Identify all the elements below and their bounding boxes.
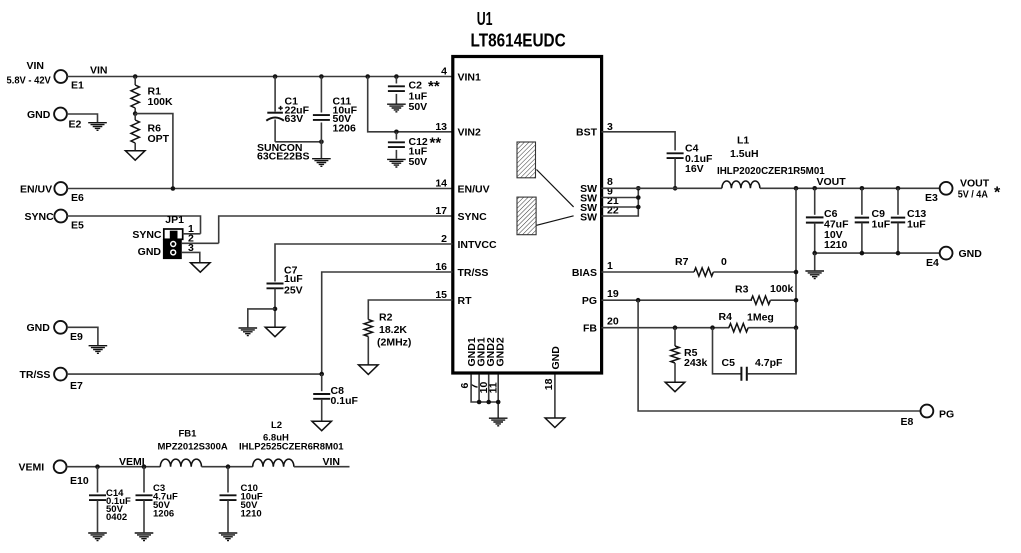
svg-text:4: 4 (441, 66, 447, 78)
capacitor C9 1uF (855, 188, 891, 253)
node SW bus junction pin 8 (636, 186, 641, 191)
node R1/R6 junction (133, 111, 138, 116)
svg-text:1: 1 (607, 260, 613, 272)
resistor R3 100k (735, 283, 794, 304)
svg-text:243k: 243k (684, 357, 708, 369)
svg-text:17: 17 (435, 205, 447, 217)
svg-text:**: ** (430, 135, 442, 152)
wire VIN2 branch (368, 77, 453, 132)
wire R3 to vertical (770, 299, 796, 301)
svg-text:R7: R7 (675, 256, 689, 268)
svg-text:SW: SW (580, 212, 597, 224)
terminal E8 PG (901, 405, 955, 428)
svg-text:1206: 1206 (333, 123, 357, 135)
IC U1 LT8614EUDC (buck regulator) (453, 8, 602, 373)
capacitor C7 1uF 25V (267, 265, 304, 327)
svg-text:INTVCC: INTVCC (458, 239, 498, 251)
svg-text:1uF: 1uF (284, 273, 303, 285)
node C11 bottom junction (319, 140, 324, 145)
svg-text:1.5uH: 1.5uH (730, 148, 759, 160)
svg-text:FB: FB (583, 323, 597, 335)
pin SW (21) (580, 195, 619, 214)
svg-text:BIAS: BIAS (572, 267, 597, 279)
svg-text:E2: E2 (69, 119, 82, 131)
internal switch block upper (517, 142, 536, 178)
svg-text:E5: E5 (71, 220, 84, 232)
node VIN rail / C2 junction (394, 74, 399, 79)
svg-text:*: * (994, 185, 1001, 202)
svg-text:18.2K: 18.2K (379, 324, 407, 336)
node C3 junction (142, 464, 147, 469)
pin SW (22) (580, 205, 619, 224)
node VIN rail / R1 junction (133, 74, 138, 79)
node GND pin 10 junction (486, 400, 491, 405)
node SW bus junction pin 9 (636, 195, 641, 200)
node VIN rail / C11 junction (319, 74, 324, 79)
pin SW (9) (580, 186, 613, 205)
node C4 bottom on SW line (673, 186, 678, 191)
svg-text:0: 0 (721, 256, 727, 268)
ground under C2 (387, 104, 406, 112)
svg-text:VIN1: VIN1 (458, 71, 482, 83)
svg-text:1Meg: 1Meg (747, 312, 774, 324)
pin GND1 (7) (469, 337, 488, 389)
svg-text:GND2: GND2 (495, 337, 507, 366)
ground left of C7 (239, 328, 258, 336)
svg-text:1uF: 1uF (872, 219, 891, 231)
capacitor C10 10uF 50V 1210 (220, 467, 263, 533)
capacitor C8 0.1uF (313, 374, 358, 421)
svg-text:VIN: VIN (323, 456, 341, 468)
svg-text:14: 14 (435, 178, 447, 190)
wire C1 bottom to C11 bottom (275, 141, 321, 143)
ground under output rail (805, 271, 824, 279)
capacitor C6 47uF 10V 1210 (806, 188, 849, 253)
capacitor C14 0.1uF 50V 0402 (89, 467, 131, 533)
node GND pin 7 junction (477, 400, 482, 405)
pin FB (20) (583, 316, 619, 335)
svg-text:VIN: VIN (27, 60, 45, 72)
node VOUT / C13 junction (896, 186, 901, 191)
svg-text:EN/UV: EN/UV (20, 184, 52, 196)
pin VIN2 (13) (435, 121, 481, 139)
svg-text:E8: E8 (901, 416, 914, 428)
wire PG pin to R3 (601, 299, 752, 301)
capacitor C11 10uF 50V 1206 (313, 77, 358, 159)
node EN/UV junction (171, 186, 176, 191)
svg-text:13: 13 (435, 121, 447, 133)
svg-text:SYNC: SYNC (25, 211, 55, 223)
pin GND2 (11) (488, 337, 507, 393)
capacitor C2 1uF 50V (388, 77, 440, 114)
pin TR/SS (16) (435, 261, 488, 279)
svg-text:E7: E7 (70, 380, 83, 392)
svg-text:GND: GND (138, 246, 162, 258)
svg-text:**: ** (428, 78, 440, 95)
svg-text:19: 19 (607, 288, 619, 300)
ground under GND pin 18 (545, 418, 565, 428)
node SW bus junction pin 21 (636, 205, 641, 210)
node C10 junction (226, 464, 231, 469)
node TR/SS junction (319, 372, 324, 377)
wire PG net to E8 (638, 300, 920, 411)
wire E2 to ground (67, 114, 98, 123)
wire GND1/GND2 pins to ground (471, 375, 498, 418)
node VOUT / C6 junction (812, 186, 817, 191)
node R3 right junction (794, 298, 799, 303)
node ground rail / C9 junction (860, 251, 865, 256)
node ground rail / C6 junction (812, 251, 817, 256)
svg-text:RT: RT (458, 295, 473, 307)
wire TR/SS pin to E7 line (322, 272, 453, 374)
wire FB pin to R4 (601, 327, 729, 329)
ground at E9 (89, 346, 108, 354)
wire C7 junction to left ground (248, 309, 275, 327)
svg-text:L1: L1 (737, 135, 749, 147)
wire VEMI rail (66, 466, 160, 468)
wire L2 to VIN (294, 466, 350, 468)
inductor L1 1.5uH (717, 135, 825, 189)
svg-text:4.7pF: 4.7pF (755, 357, 783, 369)
wire E9 to ground (67, 327, 98, 345)
svg-text:R2: R2 (379, 312, 393, 324)
inductor FB1 MPZ2012S300A (158, 429, 228, 467)
svg-text:1210: 1210 (824, 239, 848, 251)
svg-text:GND: GND (550, 346, 562, 370)
wire SW line to L1 (601, 187, 722, 189)
svg-text:VEMI: VEMI (19, 462, 45, 474)
capacitor C12 1uF 50V (388, 132, 441, 168)
terminal E6 EN/UV (20, 182, 84, 204)
svg-text:E6: E6 (71, 192, 84, 204)
pin PG (19) (582, 288, 619, 307)
node ground rail / C13 junction (896, 251, 901, 256)
node R4 right junction (794, 325, 799, 330)
terminal E2 GND (27, 108, 82, 131)
node C7 bottom junction (273, 307, 278, 312)
wire output ground rail (815, 252, 940, 254)
svg-text:E4: E4 (926, 257, 939, 269)
svg-text:E10: E10 (70, 475, 89, 487)
svg-text:BST: BST (576, 127, 598, 139)
pin SYNC (17) (435, 205, 487, 223)
svg-text:SYNC: SYNC (132, 229, 162, 241)
svg-text:1210: 1210 (241, 509, 262, 520)
node R5 top junction (673, 325, 678, 330)
svg-text:0402: 0402 (106, 512, 127, 523)
node VOUT / C9 junction (860, 186, 865, 191)
node BIAS junction (794, 270, 799, 275)
ground at E2 (88, 123, 107, 131)
jumper JP1 (132, 214, 218, 263)
pin EN/UV (14) (435, 178, 489, 196)
wire E7 to junction (67, 373, 322, 375)
svg-text:C5: C5 (722, 357, 736, 369)
wire RT pin to R2 (368, 300, 452, 320)
wire R7 to vertical (713, 271, 796, 273)
capacitor C5 4.7pF (713, 328, 797, 381)
svg-text:VOUT: VOUT (817, 176, 847, 188)
svg-text:TR/SS: TR/SS (20, 369, 51, 381)
ground under GND1/GND2 pins (489, 418, 508, 426)
svg-text:100K: 100K (148, 96, 174, 108)
svg-text:20: 20 (607, 316, 619, 328)
node PG junction (636, 298, 641, 303)
terminal E1 VIN (7, 60, 85, 92)
ground under C8 (312, 421, 332, 431)
svg-text:25V: 25V (284, 285, 303, 297)
capacitor C1 22uF 63V (257, 77, 310, 163)
ground under R5 (665, 382, 685, 392)
wire BIAS to R7 (601, 271, 694, 273)
svg-text:LT8614EUDC: LT8614EUDC (471, 30, 566, 51)
node VIN rail / C1 junction (273, 74, 278, 79)
wire EN/UV to pin 14 (67, 188, 453, 190)
wire VOUT rail L1 to E3 (760, 187, 940, 189)
svg-text:0.1uF: 0.1uF (331, 395, 359, 407)
wire GND pin 18 (554, 375, 556, 418)
pin GND2 (10) (478, 337, 497, 393)
leader line upper block to SW (537, 170, 574, 207)
pin BST (3) (576, 121, 613, 139)
svg-text:MPZ2012S300A: MPZ2012S300A (158, 442, 228, 453)
ground under C14 (88, 533, 107, 541)
pin SW (8) (580, 176, 613, 195)
resistor R2 18.2K (2MHz) (364, 312, 411, 365)
node C5 branch junction (710, 325, 715, 330)
svg-text:5V / 4A: 5V / 4A (958, 189, 989, 201)
ground under C7 (265, 327, 285, 337)
wire JP1 pin 2 to SYNC pin 17 (219, 216, 453, 243)
pin VIN1 (4) (441, 66, 481, 84)
ground under JP1 (191, 263, 211, 273)
svg-text:GND: GND (27, 109, 51, 121)
svg-text:5.8V - 42V: 5.8V - 42V (7, 75, 51, 87)
capacitor C4 0.1uF 16V (667, 143, 713, 189)
svg-text:50V: 50V (409, 156, 428, 168)
wire rail to ground (814, 253, 816, 270)
svg-text:PG: PG (582, 295, 597, 307)
ground under C11 (312, 159, 331, 167)
wire right feedback vertical (795, 188, 797, 373)
svg-text:GND: GND (27, 322, 51, 334)
internal switch block lower (517, 197, 536, 235)
svg-text:18: 18 (543, 378, 555, 390)
svg-text:63V: 63V (285, 113, 304, 125)
wire INTVCC to C7 (275, 244, 453, 282)
wire VIN rail E1 to VIN1 pin (67, 76, 453, 78)
svg-text:3: 3 (188, 242, 194, 254)
leader line lower block to SW (537, 216, 574, 226)
svg-text:GND: GND (959, 248, 983, 260)
svg-text:L2: L2 (271, 420, 282, 431)
node VIN rail / VIN2 branch junction (365, 74, 370, 79)
svg-text:(2MHz): (2MHz) (377, 336, 411, 348)
svg-text:E9: E9 (70, 331, 83, 343)
ground under C3 (135, 533, 154, 541)
terminal E3 VOUT (925, 178, 1001, 205)
capacitor C3 4.7uF 50V 1206 (136, 467, 179, 533)
svg-text:EN/UV: EN/UV (458, 183, 490, 195)
wire BST to C4 (601, 132, 675, 151)
svg-text:1206: 1206 (153, 509, 174, 520)
resistor R6 OPT (131, 114, 170, 151)
inductor L2 6.8uH (239, 420, 344, 467)
svg-text:SYNC: SYNC (458, 211, 488, 223)
pin BIAS (1) (572, 260, 613, 279)
svg-text:VEMI: VEMI (119, 456, 145, 468)
resistor R1 100K (131, 77, 173, 114)
svg-text:63CE22BS: 63CE22BS (257, 151, 310, 163)
svg-text:R3: R3 (735, 284, 749, 296)
svg-text:IHLP2525CZER6R8M01: IHLP2525CZER6R8M01 (239, 442, 344, 453)
svg-text:E1: E1 (71, 80, 84, 92)
svg-text:100k: 100k (770, 283, 794, 295)
svg-text:U1: U1 (477, 8, 493, 29)
ground under C10 (219, 533, 238, 541)
svg-text:FB1: FB1 (179, 429, 198, 440)
svg-text:R4: R4 (719, 311, 733, 323)
ground under R2 (359, 365, 379, 375)
svg-text:E3: E3 (925, 192, 938, 204)
node C14 junction (95, 464, 100, 469)
svg-text:VIN: VIN (90, 65, 108, 77)
capacitor C13 1uF (891, 188, 927, 253)
svg-text:PG: PG (939, 409, 954, 421)
wire R4 to vertical (748, 327, 796, 329)
wire E5 to JP1 pin 1 (67, 216, 201, 234)
svg-text:TR/SS: TR/SS (458, 267, 489, 279)
svg-text:IHLP2020CZER1R5M01: IHLP2020CZER1R5M01 (717, 165, 825, 177)
terminal E5 SYNC (25, 210, 85, 232)
resistor R7 0 (675, 256, 727, 276)
svg-text:JP1: JP1 (165, 214, 184, 226)
pin GND1 (6) (459, 337, 478, 388)
pin RT (15) (435, 289, 472, 307)
svg-text:16V: 16V (685, 163, 704, 175)
pin GND (18) (543, 346, 562, 390)
node GND pin 11 junction (496, 400, 501, 405)
pin INTVCC (2) (441, 233, 497, 251)
terminal E4 GND (926, 247, 982, 269)
resistor R5 243k (671, 328, 708, 382)
svg-text:VIN2: VIN2 (458, 127, 482, 139)
resistor R4 1Meg (719, 311, 774, 332)
node VOUT / feedback junction (794, 186, 799, 191)
ground under R6 (125, 151, 145, 161)
terminal E7 TR/SS (20, 368, 84, 392)
wire junction to EN/UV line (135, 114, 173, 189)
svg-text:50V: 50V (409, 101, 428, 113)
terminal E9 GND (27, 321, 84, 343)
svg-text:OPT: OPT (148, 133, 170, 145)
wire FB1 to L2 (202, 466, 253, 468)
wire SW pins bus (601, 188, 638, 216)
terminal E10 VEMI (19, 460, 89, 487)
ground under C12 (387, 159, 406, 167)
svg-text:1uF: 1uF (907, 219, 926, 231)
node C12 junction (394, 130, 399, 135)
